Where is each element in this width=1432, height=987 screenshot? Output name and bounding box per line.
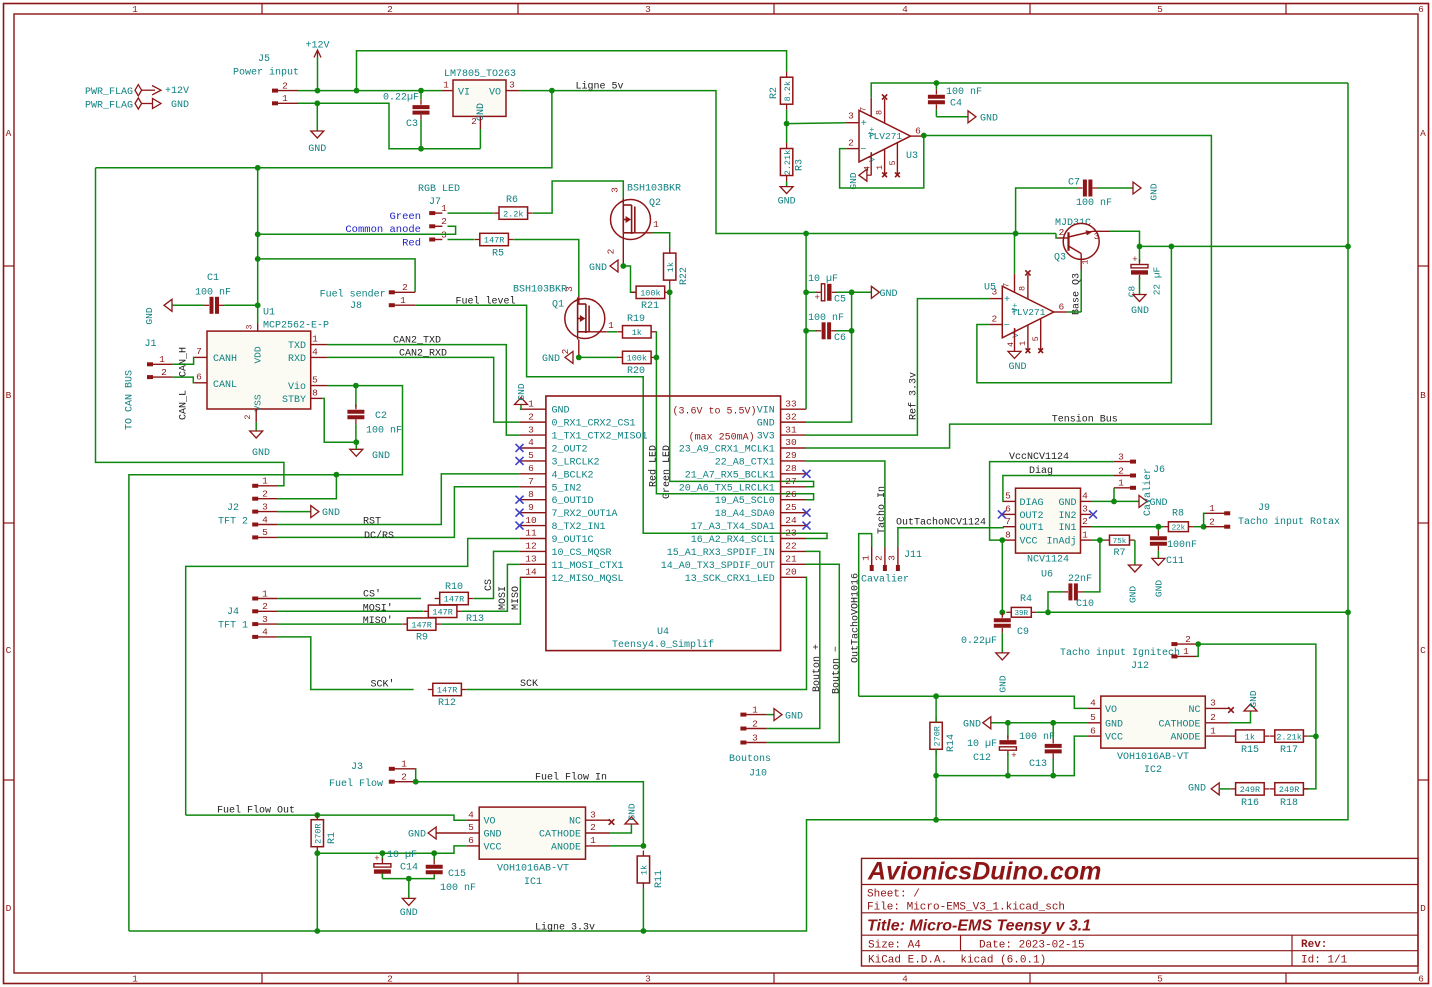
svg-text:C: C — [6, 645, 12, 656]
svg-text:8_TX2_IN1: 8_TX2_IN1 — [552, 522, 606, 533]
ground left of IC2 pin5 — [983, 717, 991, 729]
svg-text:15_A1_RX3_SPDIF_IN: 15_A1_RX3_SPDIF_IN — [667, 548, 775, 559]
svg-text:V+: V+ — [868, 127, 877, 137]
svg-text:ANODE: ANODE — [551, 842, 581, 853]
junction R4 left — [999, 609, 1005, 615]
wire IC2 anode to R15 — [1229, 735, 1231, 737]
wire IC1 anode to R11 top — [610, 845, 644, 847]
svg-text:100k: 100k — [640, 289, 660, 299]
U6 pin 2 IN1 — [1081, 526, 1092, 528]
resistor R16 249R — [1231, 788, 1236, 790]
resistor R3 2.21k — [786, 143, 788, 149]
svg-text:GND: GND — [542, 354, 560, 365]
svg-text:AvionicsDuino.com: AvionicsDuino.com — [867, 858, 1101, 886]
junction C3 bottom — [418, 146, 424, 152]
svg-text:NC: NC — [1188, 705, 1200, 716]
svg-text:CAN_H: CAN_H — [178, 347, 189, 377]
svg-text:C: C — [1420, 645, 1426, 656]
wire J11 pin3 OutTachoNCV1124 to U6 OUT1 — [898, 527, 1003, 547]
resistor R18 249R — [1270, 788, 1275, 790]
svg-text:3: 3 — [564, 286, 575, 292]
svg-text:VSS: VSS — [252, 394, 263, 411]
svg-text:2: 2 — [1082, 516, 1088, 527]
ground symbol below J5 pin1 — [316, 103, 318, 131]
junction VDD rail top — [255, 165, 261, 171]
svg-text:Teensy4.0_Simplif: Teensy4.0_Simplif — [612, 639, 714, 651]
svg-text:CATHODE: CATHODE — [539, 830, 581, 841]
svg-text:2: 2 — [471, 116, 477, 127]
svg-text:Ref 3.3v: Ref 3.3v — [907, 372, 919, 420]
junction feedback drop U5 — [1169, 244, 1175, 250]
resistor R8 22k — [1163, 526, 1168, 528]
junction C5 left — [803, 289, 809, 295]
junction common anode on VDD rail — [255, 231, 261, 237]
svg-text:26: 26 — [785, 489, 797, 500]
junction C8 top — [1137, 244, 1143, 250]
wire Teensy pin11 to Fuel Flow Out rail — [186, 539, 520, 816]
svg-text:PWR_FLAG: PWR_FLAG — [85, 101, 133, 112]
svg-text:R22: R22 — [679, 267, 690, 285]
svg-text:+: + — [1004, 295, 1010, 306]
ground below C14/C15 — [408, 879, 410, 899]
svg-text:+: + — [861, 119, 867, 130]
wire IC2 VO from OutTachoVOH1016 rail — [859, 696, 1088, 708]
U4 pin 2 0_RX1_CRX2_CS1 — [520, 421, 546, 423]
wire J2 pin3 to ground — [277, 511, 311, 513]
svg-text:R20: R20 — [627, 366, 645, 377]
wire Vio 3.3v rail down left side — [129, 475, 337, 931]
svg-text:V+: V+ — [1012, 303, 1021, 313]
svg-text:J6: J6 — [1153, 465, 1165, 476]
wire C10 left to R4 line — [1048, 592, 1063, 612]
wire R9 to Teensy pin14 MISO net — [441, 577, 520, 624]
junction R20 right — [654, 355, 660, 361]
U4 pin 11 9_OUT1C — [520, 538, 546, 540]
svg-text:J10: J10 — [749, 769, 767, 780]
wire Q1 source to R20 — [579, 356, 618, 358]
svg-text:NCV1124: NCV1124 — [1027, 555, 1069, 566]
svg-text:Power input: Power input — [233, 67, 299, 79]
svg-text:Tacho input Ignitech: Tacho input Ignitech — [1060, 647, 1180, 659]
wire R7 right to ground — [1134, 539, 1136, 541]
svg-text:5: 5 — [1005, 491, 1011, 502]
wire CAN2_TXD from U1 TXD to Teensy pin3 — [327, 345, 520, 436]
wire R14 down to 3.3v rail — [935, 776, 937, 820]
svg-text:C8: C8 — [1126, 286, 1137, 298]
svg-text:CS': CS' — [363, 589, 381, 601]
svg-text:28: 28 — [785, 463, 797, 474]
svg-text:6: 6 — [1090, 725, 1096, 736]
svg-text:GND: GND — [476, 103, 487, 121]
wire U6 VCC down to R4 — [1001, 540, 1003, 612]
svg-text:2: 2 — [848, 138, 854, 149]
svg-text:Fuel Flow Out: Fuel Flow Out — [217, 805, 295, 817]
svg-text:2.21k: 2.21k — [1276, 732, 1302, 742]
svg-text:A: A — [1420, 128, 1426, 139]
wire Fuel Flow Out rail to IC1 VO — [186, 815, 467, 820]
U4 pin 9 7_RX2_OUT1A — [520, 512, 546, 514]
svg-text:V−: V− — [869, 152, 878, 162]
svg-text:0_RX1_CRX2_CS1: 0_RX1_CRX2_CS1 — [552, 419, 636, 430]
junction C7 to 5v rail — [1013, 231, 1019, 237]
svg-text:GND: GND — [757, 419, 775, 430]
wire R10 to Teensy pin12 CS net — [474, 551, 520, 598]
capacitor C8 22uF polarized — [1139, 246, 1141, 262]
wire Q2 source to R21 — [623, 266, 636, 292]
U1 pin4 RXD — [311, 356, 327, 358]
wire U1 STBY to ground loop — [322, 398, 356, 442]
junction U6 VCC — [999, 537, 1005, 543]
svg-text:C1: C1 — [207, 273, 219, 284]
junction Q2 source — [620, 263, 626, 269]
wire RST J2 pin4 to Teensy pin6 — [277, 474, 520, 525]
svg-text:29: 29 — [785, 450, 797, 461]
svg-text:Q1: Q1 — [552, 300, 564, 311]
svg-text:22k: 22k — [1172, 525, 1186, 533]
svg-text:R14: R14 — [946, 734, 957, 752]
svg-text:TFT 1: TFT 1 — [218, 621, 248, 632]
svg-text:Red LED: Red LED — [647, 445, 659, 487]
svg-text:R7: R7 — [1113, 548, 1125, 559]
svg-text:0.22µF: 0.22µF — [961, 636, 997, 647]
wire R12 to Teensy pin20 SCK net — [467, 577, 807, 689]
svg-text:CAN2_RXD: CAN2_RXD — [399, 348, 447, 359]
junction +12V at J5 pin 2 — [315, 88, 321, 94]
U4 pin 24 17_A3_TX4_SDA1 — [781, 525, 806, 527]
wire J1 pin2 to CANL — [173, 377, 194, 383]
svg-text:GND: GND — [1188, 784, 1206, 795]
svg-text:Fuel Flow: Fuel Flow — [329, 778, 383, 790]
svg-text:J1: J1 — [144, 339, 156, 350]
svg-text:GND: GND — [848, 172, 859, 189]
svg-text:3: 3 — [1118, 451, 1124, 462]
svg-text:RST: RST — [363, 517, 381, 528]
svg-text:39R: 39R — [1015, 610, 1029, 618]
svg-text:GND: GND — [308, 144, 326, 155]
svg-text:OutTachoNCV1124: OutTachoNCV1124 — [896, 517, 986, 529]
svg-text:J4: J4 — [227, 607, 239, 618]
svg-text:1: 1 — [282, 93, 288, 104]
svg-text:GND: GND — [171, 100, 189, 111]
wire J4 pin4 SCK' to R12 — [277, 637, 414, 690]
svg-text:VOH1016AB-VT: VOH1016AB-VT — [497, 864, 569, 875]
svg-text:100 nF: 100 nF — [808, 313, 844, 324]
wire C6 left down to Teensy VIN — [805, 331, 807, 409]
svg-text:−: − — [1004, 321, 1010, 332]
J6 pin2 — [1130, 474, 1136, 478]
svg-text:4: 4 — [1006, 342, 1016, 347]
svg-text:14_A0_TX3_SPDIF_OUT: 14_A0_TX3_SPDIF_OUT — [661, 561, 775, 572]
svg-text:C5: C5 — [834, 295, 846, 306]
svg-text:KiCad E.D.A. kicad (6.0.1): KiCad E.D.A. kicad (6.0.1) — [868, 955, 1046, 967]
svg-text:11_MOSI_CTX1: 11_MOSI_CTX1 — [552, 561, 624, 572]
junction J12 — [1195, 641, 1201, 647]
junction U3 output — [921, 133, 927, 139]
U6 pin 3 IN2 — [1081, 513, 1092, 515]
wire J4 pin2 MOSI' to R13 — [277, 610, 423, 612]
svg-text:GND: GND — [1148, 183, 1159, 200]
svg-text:R3: R3 — [795, 159, 806, 171]
resistor R6 2.2k — [494, 212, 499, 214]
svg-text:3V3: 3V3 — [757, 432, 775, 443]
capacitor C15 100nF — [433, 853, 435, 860]
svg-text:12_MISO_MQSL: 12_MISO_MQSL — [552, 574, 624, 585]
svg-text:J8: J8 — [350, 301, 362, 312]
wire InAdj down to C10 — [1083, 540, 1100, 592]
wire +12V rail up to top rail — [357, 51, 787, 91]
svg-text:1: 1 — [443, 80, 449, 91]
svg-text:R11: R11 — [654, 870, 665, 888]
svg-text:4_BCLK2: 4_BCLK2 — [552, 470, 594, 481]
op-amp U5 TLV271 — [1002, 286, 1054, 338]
capacitor C3 0.22uF — [420, 91, 422, 100]
svg-text:MISO': MISO' — [363, 615, 393, 627]
wire C14 C15 bottoms joined — [382, 878, 434, 880]
svg-text:+: + — [814, 293, 819, 303]
svg-text:GND: GND — [1154, 580, 1165, 597]
wire R13 to Teensy pin13 MOSI net — [462, 564, 520, 611]
svg-text:IC1: IC1 — [524, 877, 542, 888]
wire C5 right to ground arrow — [852, 291, 872, 293]
wire R5 to Q1 drain — [514, 240, 579, 297]
svg-text:2_OUT2: 2_OUT2 — [552, 444, 588, 455]
wire R4 line to 3.3v rail — [1036, 611, 1348, 613]
svg-text:(max 250mA): (max 250mA) — [689, 431, 755, 443]
svg-text:1: 1 — [590, 835, 596, 846]
svg-text:VCC: VCC — [1020, 537, 1038, 548]
ground right of C7 — [1098, 187, 1134, 189]
junction C12 bottom — [1005, 773, 1011, 779]
wire junction down to J2 pin2 — [277, 475, 336, 499]
IC2 pin 2 CATHODE — [1205, 722, 1229, 724]
svg-text:10: 10 — [525, 515, 537, 526]
svg-text:OutTachoVOH1016: OutTachoVOH1016 — [850, 573, 862, 663]
resistor R2 8.2k — [786, 72, 788, 78]
svg-text:C12: C12 — [973, 753, 991, 764]
svg-text:VCC: VCC — [484, 842, 502, 853]
svg-text:U3: U3 — [906, 151, 918, 162]
svg-text:GND: GND — [1127, 586, 1138, 603]
svg-text:2: 2 — [1185, 634, 1191, 645]
svg-text:C13: C13 — [1029, 759, 1047, 770]
svg-text:Tacho input Rotax: Tacho input Rotax — [1238, 516, 1340, 528]
svg-text:Red: Red — [402, 237, 421, 249]
U5 pin4 ground symbol — [1008, 351, 1021, 358]
svg-text:R5: R5 — [492, 249, 504, 260]
svg-text:VO: VO — [489, 88, 501, 99]
svg-text:22: 22 — [785, 541, 797, 552]
svg-text:R10: R10 — [445, 582, 463, 593]
svg-text:6: 6 — [915, 125, 921, 136]
svg-text:J2: J2 — [227, 503, 239, 514]
svg-text:1k: 1k — [1245, 732, 1255, 742]
wire 5v rail down to C5 — [805, 234, 807, 293]
svg-text:File: Micro-EMS_V3_1.kicad_sch: File: Micro-EMS_V3_1.kicad_sch — [867, 902, 1065, 914]
svg-text:J5: J5 — [258, 54, 270, 65]
svg-text:8: 8 — [1018, 286, 1028, 291]
U4 pin 6 4_BCLK2 — [520, 473, 546, 475]
resistor R19 1k — [618, 331, 623, 333]
svg-text:20: 20 — [785, 566, 797, 577]
wire U5 feedback loop — [977, 246, 1172, 382]
junction R21/R22 — [667, 289, 673, 295]
U4 pin 20 13_SCK_CRX1_LED — [781, 576, 806, 578]
svg-text:2: 2 — [991, 314, 997, 325]
svg-text:10 µF: 10 µF — [387, 850, 417, 861]
junction 3.3v vertical at right — [1345, 244, 1351, 250]
svg-text:7_RX2_OUT1A: 7_RX2_OUT1A — [552, 509, 618, 520]
svg-text:C9: C9 — [1017, 627, 1029, 638]
wire R1 bottom to 3.3v rail — [316, 852, 318, 931]
svg-text:9: 9 — [528, 502, 534, 513]
U6 pin 6 OUT2 — [1003, 513, 1016, 515]
svg-text:U4: U4 — [657, 627, 669, 638]
svg-text:C7: C7 — [1068, 178, 1080, 189]
svg-text:D: D — [6, 903, 12, 914]
resistor R22 1k vertical — [669, 248, 671, 254]
svg-text:147R: 147R — [444, 595, 464, 605]
svg-text:Q2: Q2 — [649, 198, 661, 209]
svg-text:6: 6 — [1418, 4, 1424, 15]
wire C6 right down to Teensy GND pin32 — [806, 331, 852, 422]
svg-text:1: 1 — [1183, 646, 1189, 657]
svg-text:100 nF: 100 nF — [366, 426, 402, 437]
svg-text:4: 4 — [902, 974, 908, 985]
svg-text:1: 1 — [1118, 478, 1124, 489]
wire 5v branch down to U1 VDD rail — [96, 91, 552, 168]
svg-text:R2: R2 — [769, 87, 780, 99]
U4 pin 4 2_OUT2 — [520, 447, 546, 449]
junction Vio rail to J2 pin2 — [334, 472, 340, 478]
svg-text:3: 3 — [887, 555, 898, 561]
svg-text:CANH: CANH — [213, 354, 237, 365]
junction C5 right — [849, 289, 855, 295]
svg-text:5: 5 — [1157, 974, 1163, 985]
svg-text:Bouton −: Bouton − — [831, 646, 842, 694]
wire Q3 emitter down to U5 output — [1080, 270, 1082, 312]
svg-text:2.2k: 2.2k — [503, 209, 523, 219]
svg-text:J11: J11 — [904, 550, 922, 561]
wire J3 pin1 to pin2 junction — [414, 769, 417, 782]
svg-text:GND: GND — [552, 406, 570, 417]
svg-text:VOH1016AB-VT: VOH1016AB-VT — [1117, 752, 1189, 763]
svg-text:STBY: STBY — [282, 395, 306, 406]
svg-text:2: 2 — [387, 974, 393, 985]
svg-text:1: 1 — [1082, 529, 1088, 540]
wire gnd to R16 — [1219, 788, 1230, 790]
wire CAN2_RXD from U1 RXD to Teensy pin2 — [327, 357, 520, 422]
svg-text:Vio: Vio — [288, 381, 306, 393]
svg-text:32: 32 — [785, 411, 797, 422]
wire C7 left to rail — [1016, 188, 1078, 233]
junction R8 left C11 — [1156, 524, 1162, 530]
svg-text:D: D — [1420, 903, 1426, 914]
svg-text:R6: R6 — [506, 195, 518, 206]
wire IC1 VCC to C14/C15 rail — [317, 846, 466, 853]
wire J7 pin3 to R5 — [448, 239, 475, 241]
svg-text:1: 1 — [132, 4, 138, 15]
junction fuel sender branch — [255, 256, 261, 262]
U6 pin 7 OUT1 — [1003, 526, 1016, 528]
svg-text:MOSI': MOSI' — [363, 602, 393, 614]
svg-text:2: 2 — [387, 4, 393, 15]
U5 pin7 wire to rail — [1014, 233, 1016, 274]
svg-text:VCC: VCC — [1105, 733, 1123, 744]
svg-text:1k: 1k — [640, 865, 650, 875]
junction IC2 VO rail R14 — [933, 693, 939, 699]
svg-text:GND: GND — [589, 263, 607, 274]
wire J12 pin1 to pin2 junction — [1196, 644, 1198, 656]
svg-text:C10: C10 — [1076, 599, 1094, 610]
U6 pin6 OUT2 no-connect — [998, 510, 1006, 518]
svg-text:11: 11 — [525, 528, 537, 539]
svg-text:16_A2_RX4_SCL1: 16_A2_RX4_SCL1 — [691, 535, 775, 546]
ground below C8 — [1133, 295, 1146, 302]
svg-text:GND: GND — [880, 289, 898, 300]
ground left of C1 — [172, 304, 204, 306]
svg-text:GND: GND — [778, 197, 796, 208]
wire Q2 source to ground junction — [622, 241, 624, 267]
wire green led net down through Teensy — [670, 286, 814, 487]
svg-text:100 nF: 100 nF — [440, 883, 476, 894]
svg-text:SCK': SCK' — [370, 679, 394, 691]
svg-text:1: 1 — [132, 974, 138, 985]
svg-text:GND: GND — [980, 113, 998, 124]
svg-text:6: 6 — [196, 372, 202, 383]
svg-text:19_A5_SCL0: 19_A5_SCL0 — [715, 496, 775, 507]
svg-text:3: 3 — [1094, 231, 1100, 242]
U4 pin 1 GND — [520, 408, 546, 410]
svg-text:5: 5 — [1090, 712, 1096, 723]
svg-text:Fuel Flow In: Fuel Flow In — [535, 772, 607, 784]
svg-text:147R: 147R — [437, 686, 457, 696]
wire J7 pin2 common anode to VDD rail — [258, 226, 456, 234]
svg-text:6: 6 — [468, 835, 474, 846]
resistor R17 2.21k — [1270, 735, 1275, 737]
wire R8 right to J9 — [1193, 526, 1205, 528]
svg-text:Q3: Q3 — [1054, 253, 1066, 264]
junction GND at J5 pin1 — [314, 100, 320, 106]
svg-text:GND: GND — [1248, 690, 1259, 707]
svg-text:17_A3_TX4_SDA1: 17_A3_TX4_SDA1 — [691, 522, 775, 533]
junction rail at R4 line — [1345, 609, 1351, 615]
svg-text:14: 14 — [525, 566, 537, 577]
IC1 pin 6 VCC — [466, 845, 479, 847]
op-amp U3 TLV271 — [859, 110, 911, 162]
ground right of C4 — [968, 111, 976, 123]
resistor R13 147R — [423, 610, 428, 612]
U4 pin 26 19_A5_SCL0 — [781, 499, 806, 501]
svg-text:GND: GND — [1058, 498, 1076, 509]
svg-text:18_A4_SDA0: 18_A4_SDA0 — [715, 509, 775, 520]
U6 pin 5 DIAG — [1003, 500, 1016, 502]
svg-text:100 nF: 100 nF — [1076, 198, 1112, 209]
svg-text:3: 3 — [610, 187, 621, 193]
svg-text:R17: R17 — [1280, 745, 1298, 756]
svg-text:2: 2 — [441, 216, 447, 227]
U1 pin1 TXD — [311, 344, 327, 346]
svg-text:7: 7 — [1002, 283, 1012, 288]
svg-text:2: 2 — [752, 718, 758, 729]
junction J6 pin1 drop on gnd wire — [1111, 499, 1117, 505]
svg-text:1k: 1k — [666, 262, 676, 272]
svg-text:4: 4 — [902, 4, 908, 15]
IC1 NC no-connect x — [609, 819, 615, 825]
wire U6 VCC to VccNCV1124 label line — [990, 462, 1114, 540]
svg-text:C14: C14 — [400, 863, 418, 874]
svg-text:2: 2 — [161, 367, 167, 378]
U1 pin5 Vio — [311, 385, 327, 387]
